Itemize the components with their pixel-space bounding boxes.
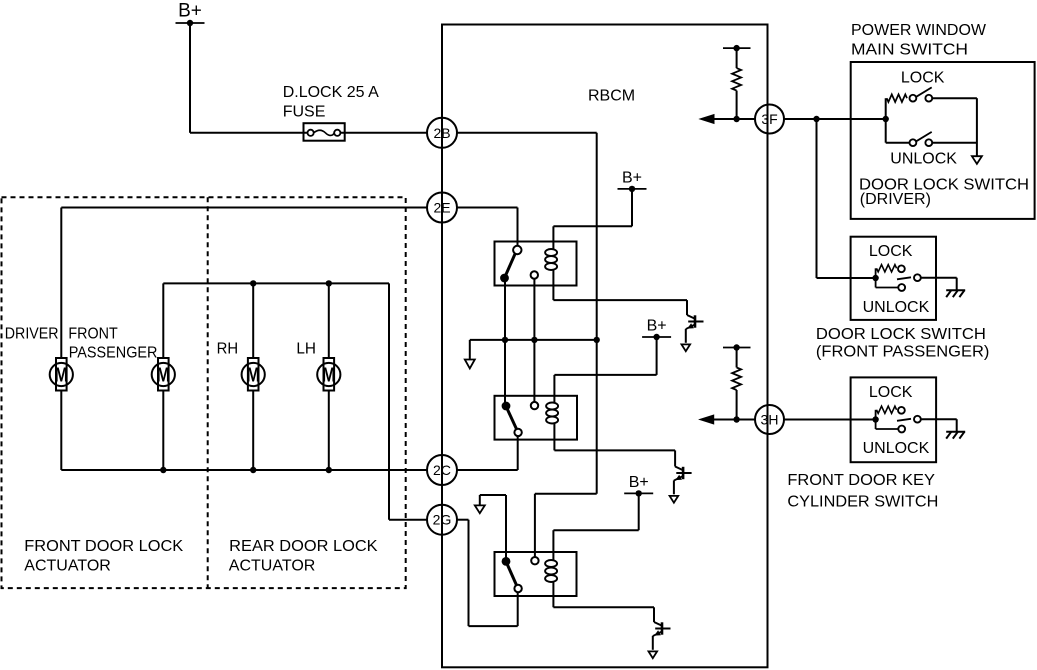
svg-text:LH: LH (296, 341, 316, 358)
svg-text:ACTUATOR: ACTUATOR (24, 558, 111, 575)
svg-text:POWER WINDOW: POWER WINDOW (851, 22, 987, 39)
svg-text:B+: B+ (178, 1, 202, 22)
svg-text:(DRIVER): (DRIVER) (860, 191, 931, 208)
svg-text:2C: 2C (433, 462, 451, 478)
svg-text:2B: 2B (433, 125, 450, 141)
svg-text:(FRONT PASSENGER): (FRONT PASSENGER) (816, 344, 990, 361)
svg-text:B+: B+ (629, 474, 649, 491)
svg-text:B+: B+ (647, 318, 667, 335)
svg-text:2E: 2E (433, 200, 450, 216)
svg-text:B+: B+ (622, 169, 642, 186)
svg-text:PASSENGER: PASSENGER (69, 345, 158, 362)
svg-text:RH: RH (217, 341, 239, 358)
svg-text:DRIVER: DRIVER (5, 326, 59, 343)
svg-text:M: M (322, 365, 336, 387)
svg-text:UNLOCK: UNLOCK (863, 440, 930, 457)
svg-text:CYLINDER SWITCH: CYLINDER SWITCH (787, 493, 938, 510)
svg-text:M: M (156, 365, 170, 387)
svg-text:RBCM: RBCM (588, 87, 635, 104)
svg-text:UNLOCK: UNLOCK (863, 299, 930, 316)
svg-text:FRONT DOOR KEY: FRONT DOOR KEY (787, 472, 935, 489)
svg-text:ACTUATOR: ACTUATOR (229, 558, 316, 575)
svg-text:REAR DOOR LOCK: REAR DOOR LOCK (229, 538, 378, 555)
svg-text:LOCK: LOCK (901, 70, 945, 87)
svg-text:MAIN SWITCH: MAIN SWITCH (851, 42, 968, 59)
svg-text:D.LOCK 25 A: D.LOCK 25 A (283, 84, 379, 101)
svg-text:FUSE: FUSE (283, 104, 326, 121)
svg-text:LOCK: LOCK (869, 243, 913, 260)
svg-text:DOOR LOCK SWITCH: DOOR LOCK SWITCH (816, 326, 986, 343)
svg-text:FRONT: FRONT (68, 326, 117, 343)
svg-text:3F: 3F (761, 111, 777, 127)
svg-text:3H: 3H (761, 412, 779, 428)
svg-text:2G: 2G (433, 512, 452, 528)
svg-text:M: M (246, 365, 260, 387)
svg-text:M: M (54, 365, 68, 387)
svg-text:FRONT DOOR LOCK: FRONT DOOR LOCK (24, 538, 183, 555)
svg-text:UNLOCK: UNLOCK (890, 151, 957, 168)
svg-text:LOCK: LOCK (869, 384, 913, 401)
